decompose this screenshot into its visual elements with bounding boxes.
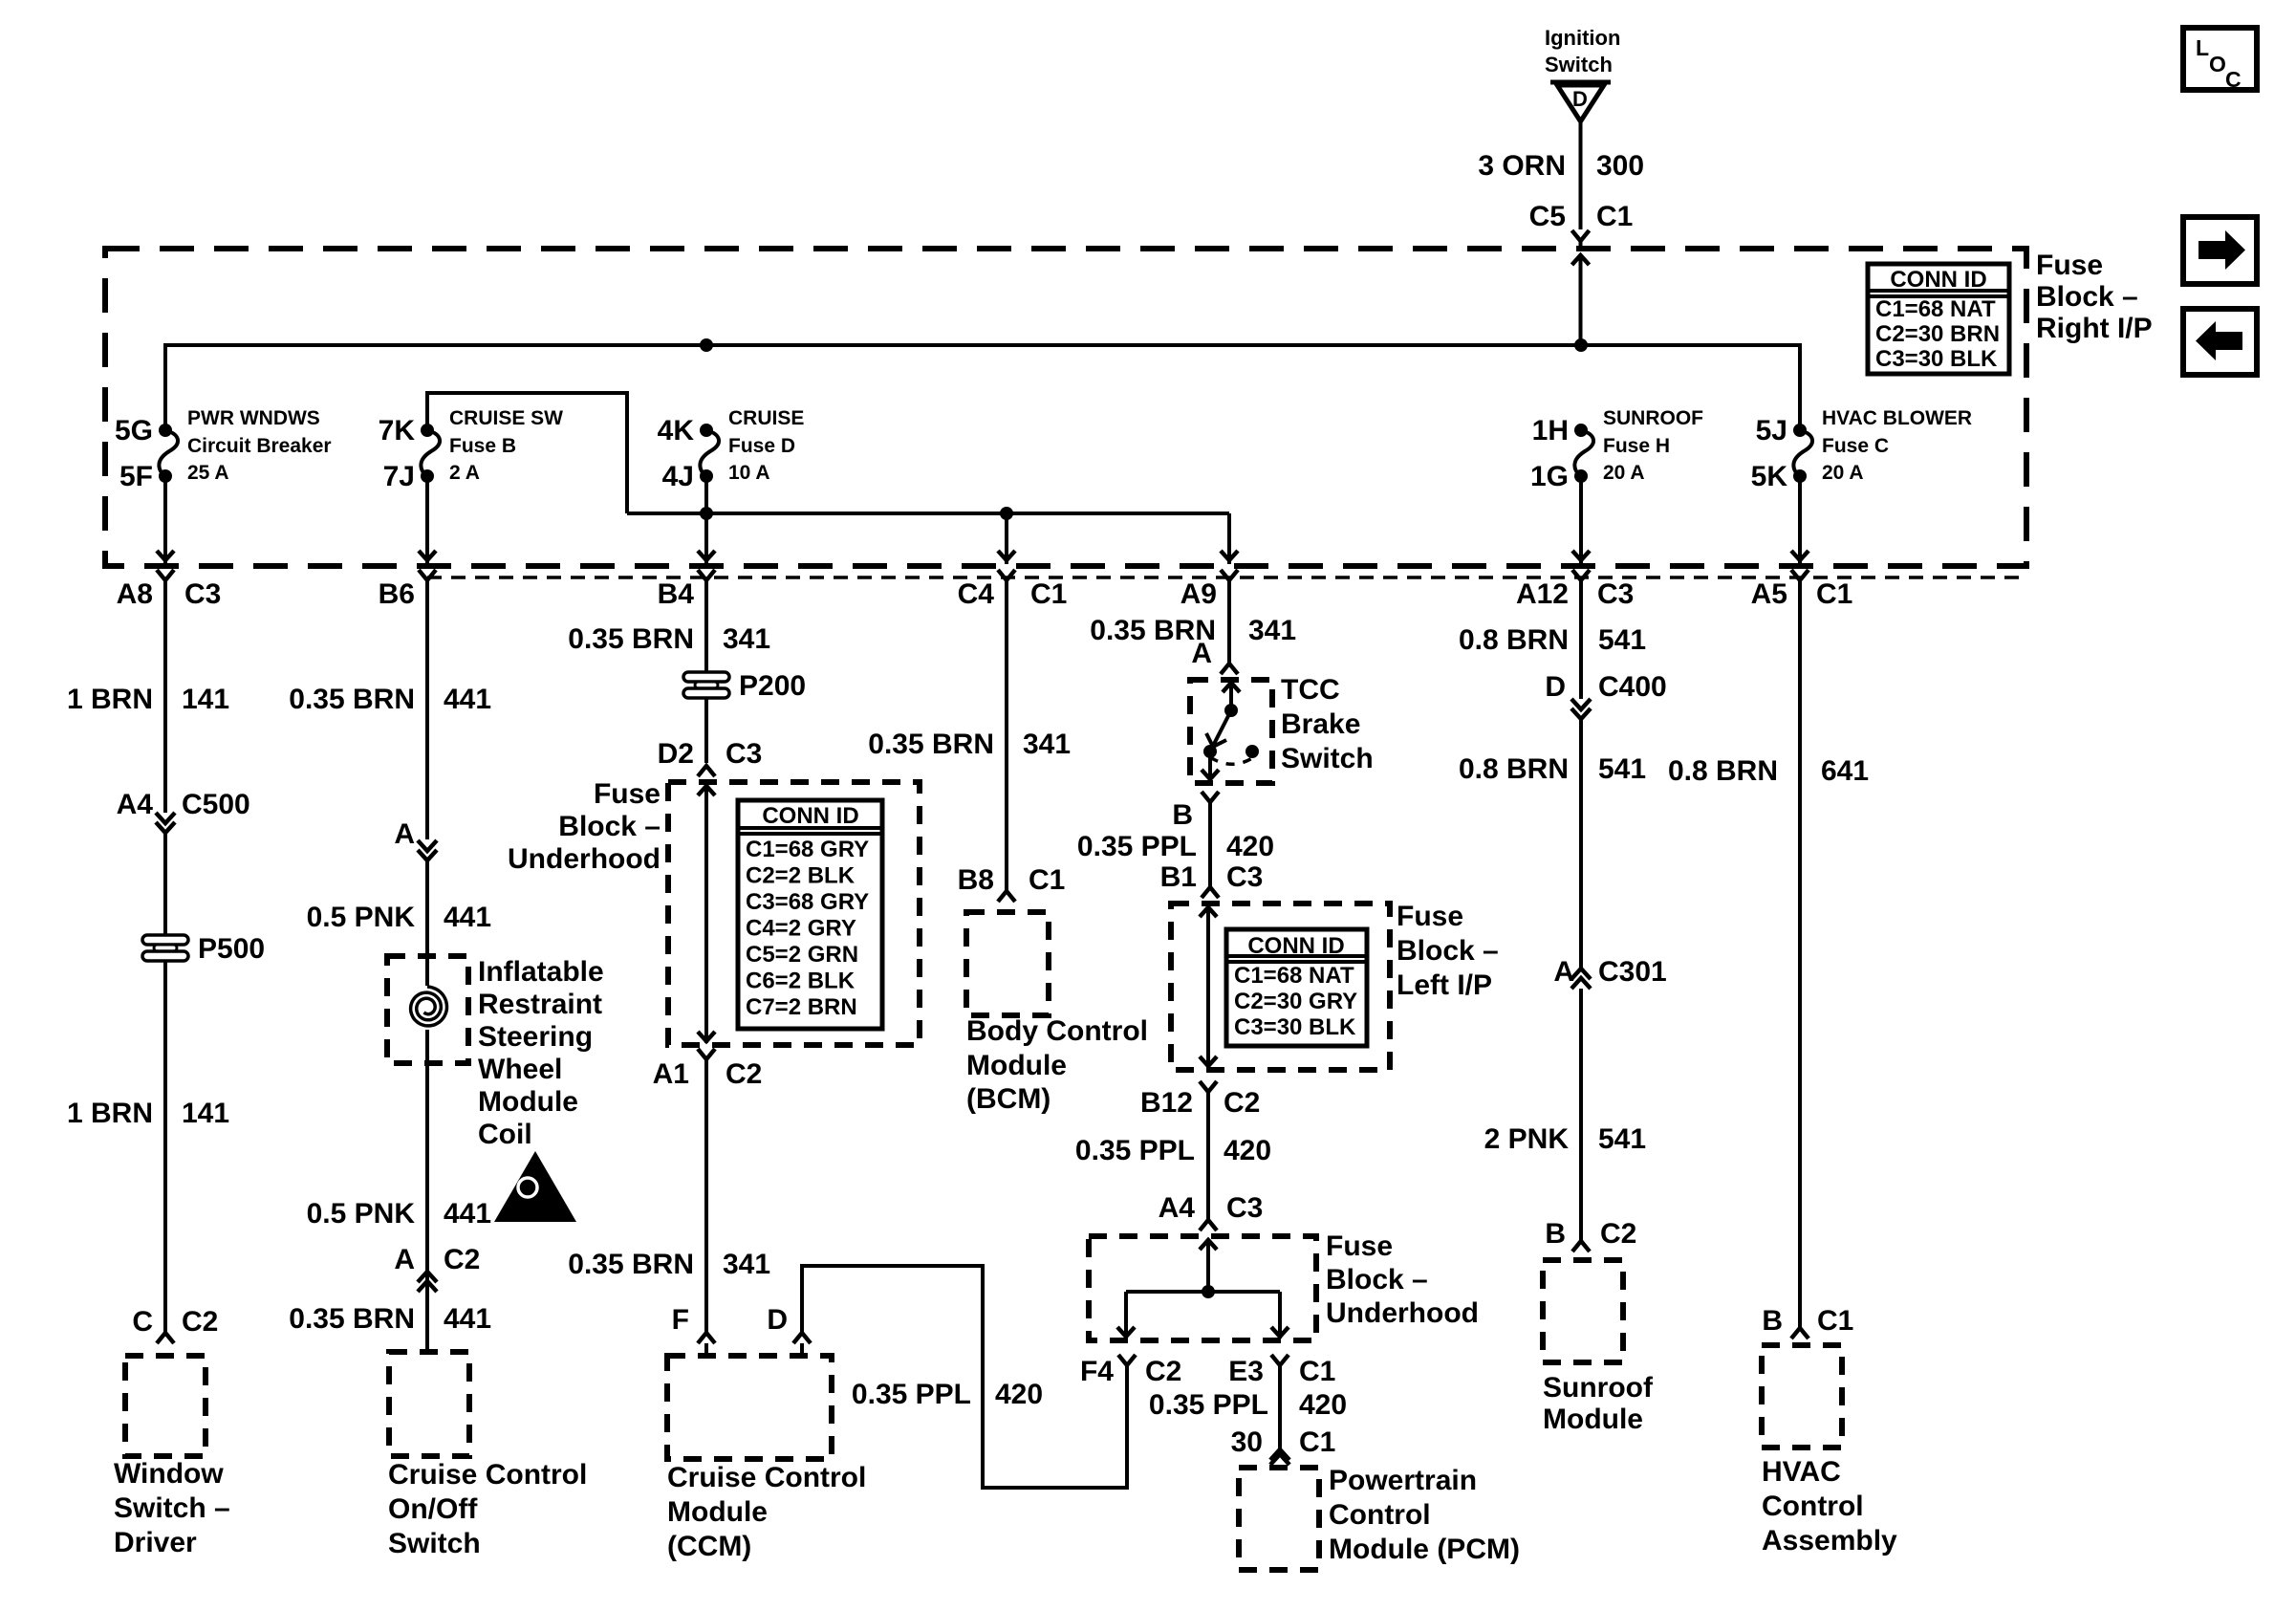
svg-text:341: 341 (1023, 729, 1071, 760)
svg-text:3 ORN: 3 ORN (1478, 150, 1566, 182)
svg-text:B4: B4 (658, 578, 695, 610)
svg-text:P500: P500 (198, 933, 265, 965)
svg-text:F4: F4 (1080, 1356, 1114, 1387)
svg-text:Circuit Breaker: Circuit Breaker (187, 435, 332, 457)
svg-text:C4=2 GRY: C4=2 GRY (746, 916, 856, 942)
svg-text:C3: C3 (726, 738, 762, 770)
svg-text:C3=30 BLK: C3=30 BLK (1234, 1014, 1356, 1040)
svg-text:A12: A12 (1516, 578, 1569, 610)
svg-text:1 BRN: 1 BRN (67, 684, 153, 715)
svg-text:Module: Module (1543, 1404, 1643, 1435)
svg-text:Block –: Block – (2036, 281, 2138, 313)
svg-text:A: A (1191, 638, 1212, 669)
svg-text:Coil: Coil (478, 1119, 532, 1150)
svg-text:Ignition: Ignition (1545, 26, 1620, 50)
svg-text:C3=30 BLK: C3=30 BLK (1875, 346, 1998, 372)
svg-text:541: 541 (1598, 624, 1646, 656)
svg-text:Cruise Control: Cruise Control (388, 1459, 587, 1491)
svg-text:Switch: Switch (388, 1528, 481, 1559)
svg-text:1 BRN: 1 BRN (67, 1098, 153, 1129)
svg-text:Cruise Control: Cruise Control (667, 1462, 866, 1493)
svg-text:541: 541 (1598, 1123, 1646, 1155)
svg-text:Fuse: Fuse (594, 778, 661, 810)
svg-text:C2=2 BLK: C2=2 BLK (746, 863, 856, 889)
svg-text:Switch: Switch (1281, 743, 1374, 774)
svg-text:HVAC BLOWER: HVAC BLOWER (1822, 407, 1972, 429)
svg-text:C2: C2 (1145, 1356, 1181, 1387)
svg-text:CONN ID: CONN ID (1247, 933, 1344, 959)
svg-text:0.5 PNK: 0.5 PNK (307, 902, 416, 933)
svg-text:D2: D2 (658, 738, 694, 770)
svg-text:Module: Module (966, 1050, 1067, 1081)
svg-text:C: C (2225, 67, 2242, 92)
svg-text:1H: 1H (1532, 415, 1569, 446)
svg-text:C1: C1 (1299, 1356, 1335, 1387)
svg-text:Body Control: Body Control (966, 1015, 1148, 1047)
svg-text:C1: C1 (1299, 1426, 1335, 1458)
svg-text:Control: Control (1762, 1491, 1864, 1522)
svg-text:Driver: Driver (114, 1527, 197, 1558)
svg-text:Powertrain: Powertrain (1329, 1465, 1477, 1496)
svg-text:441: 441 (444, 1198, 491, 1230)
svg-text:Sunroof: Sunroof (1543, 1372, 1654, 1404)
svg-text:D: D (1572, 87, 1588, 111)
svg-text:Wheel: Wheel (478, 1054, 562, 1085)
svg-text:C3: C3 (184, 578, 221, 610)
svg-text:(CCM): (CCM) (667, 1531, 751, 1562)
svg-text:25 A: 25 A (187, 462, 229, 484)
svg-text:0.35 PPL: 0.35 PPL (1149, 1389, 1268, 1421)
svg-text:441: 441 (444, 1303, 491, 1335)
svg-text:341: 341 (723, 1249, 770, 1280)
svg-text:A5: A5 (1751, 578, 1787, 610)
svg-text:141: 141 (182, 1098, 229, 1129)
svg-text:C2: C2 (726, 1058, 762, 1090)
svg-text:0.35 BRN: 0.35 BRN (568, 623, 694, 655)
svg-text:Window: Window (114, 1458, 224, 1490)
svg-text:B12: B12 (1140, 1087, 1193, 1119)
svg-text:C6=2 BLK: C6=2 BLK (746, 969, 856, 994)
svg-text:C3: C3 (1226, 1192, 1263, 1224)
svg-text:A: A (1553, 956, 1574, 988)
svg-text:5K: 5K (1751, 461, 1788, 492)
svg-text:Switch –: Switch – (114, 1492, 230, 1524)
svg-text:C2: C2 (1600, 1218, 1636, 1250)
svg-text:C1: C1 (1030, 578, 1067, 610)
svg-text:(BCM): (BCM) (966, 1083, 1051, 1115)
svg-text:5G: 5G (115, 415, 153, 446)
svg-text:Block –: Block – (558, 811, 661, 842)
svg-text:C301: C301 (1598, 956, 1667, 988)
svg-text:10 A: 10 A (728, 462, 770, 484)
svg-text:C2: C2 (182, 1306, 218, 1338)
svg-text:0.8 BRN: 0.8 BRN (1668, 755, 1778, 787)
svg-text:420: 420 (1299, 1389, 1347, 1421)
svg-text:441: 441 (444, 684, 491, 715)
svg-text:C2=30 GRY: C2=30 GRY (1234, 989, 1357, 1014)
svg-text:B: B (1762, 1305, 1783, 1337)
svg-text:0.35 PPL: 0.35 PPL (1075, 1135, 1195, 1166)
svg-text:L: L (2196, 35, 2209, 60)
svg-text:TCC: TCC (1281, 674, 1340, 706)
svg-text:441: 441 (444, 902, 491, 933)
svg-text:C1=68 NAT: C1=68 NAT (1234, 963, 1354, 989)
svg-text:141: 141 (182, 684, 229, 715)
svg-text:C2=30 BRN: C2=30 BRN (1875, 321, 2000, 347)
svg-text:SUNROOF: SUNROOF (1603, 407, 1703, 429)
svg-text:Fuse: Fuse (2036, 250, 2103, 281)
svg-text:C1=68 GRY: C1=68 GRY (746, 837, 869, 862)
svg-text:A: A (394, 1244, 415, 1275)
svg-text:Inflatable: Inflatable (478, 956, 604, 988)
svg-text:C7=2 BRN: C7=2 BRN (746, 994, 857, 1020)
svg-text:C3: C3 (1597, 578, 1634, 610)
svg-text:HVAC: HVAC (1762, 1456, 1841, 1488)
svg-text:Fuse H: Fuse H (1603, 435, 1670, 457)
svg-text:1G: 1G (1530, 461, 1569, 492)
svg-text:CRUISE: CRUISE (728, 407, 804, 429)
svg-text:B6: B6 (379, 578, 415, 610)
svg-text:C5=2 GRN: C5=2 GRN (746, 942, 858, 968)
svg-text:A4: A4 (117, 789, 154, 820)
svg-text:4K: 4K (658, 415, 695, 446)
svg-text:PWR WNDWS: PWR WNDWS (187, 407, 320, 429)
svg-text:C1: C1 (1596, 201, 1633, 232)
svg-text:C3: C3 (1226, 861, 1263, 893)
svg-text:C1: C1 (1816, 578, 1852, 610)
svg-text:541: 541 (1598, 753, 1646, 785)
svg-text:Underhood: Underhood (1326, 1297, 1479, 1329)
svg-text:B1: B1 (1160, 861, 1197, 893)
svg-text:Fuse B: Fuse B (449, 435, 516, 457)
svg-text:A8: A8 (117, 578, 153, 610)
svg-text:420: 420 (1224, 1135, 1271, 1166)
svg-text:2 PNK: 2 PNK (1484, 1123, 1570, 1155)
svg-text:Fuse C: Fuse C (1822, 435, 1889, 457)
svg-text:Module: Module (667, 1496, 768, 1528)
svg-text:Control: Control (1329, 1499, 1431, 1531)
svg-text:420: 420 (995, 1379, 1043, 1410)
svg-text:C1: C1 (1817, 1305, 1853, 1337)
svg-text:On/Off: On/Off (388, 1493, 478, 1525)
svg-text:0.5 PNK: 0.5 PNK (307, 1198, 416, 1230)
svg-text:0.8 BRN: 0.8 BRN (1459, 753, 1569, 785)
svg-text:D: D (767, 1304, 788, 1336)
svg-text:P200: P200 (739, 670, 806, 702)
svg-text:Assembly: Assembly (1762, 1525, 1897, 1557)
svg-text:C2: C2 (444, 1244, 480, 1275)
svg-text:0.35 BRN: 0.35 BRN (868, 729, 994, 760)
svg-text:20 A: 20 A (1603, 462, 1645, 484)
svg-text:Block –: Block – (1397, 935, 1499, 967)
svg-text:Steering: Steering (478, 1021, 593, 1053)
svg-text:F: F (672, 1304, 689, 1336)
svg-text:CONN ID: CONN ID (762, 803, 858, 829)
svg-text:30: 30 (1231, 1426, 1263, 1458)
svg-text:20 A: 20 A (1822, 462, 1864, 484)
svg-text:Fuse D: Fuse D (728, 435, 795, 457)
svg-text:C5: C5 (1529, 201, 1566, 232)
svg-text:641: 641 (1821, 755, 1869, 787)
svg-text:Underhood: Underhood (508, 843, 661, 875)
svg-text:Brake: Brake (1281, 708, 1360, 740)
svg-text:Fuse: Fuse (1397, 901, 1463, 932)
svg-text:7K: 7K (379, 415, 416, 446)
svg-text:A1: A1 (653, 1058, 689, 1090)
svg-text:CONN ID: CONN ID (1890, 267, 1986, 293)
svg-text:Right I/P: Right I/P (2036, 313, 2153, 344)
svg-text:4J: 4J (662, 461, 694, 492)
svg-text:2 A: 2 A (449, 462, 480, 484)
svg-text:Left I/P: Left I/P (1397, 969, 1492, 1001)
svg-text:0.35 PPL: 0.35 PPL (1077, 831, 1197, 862)
svg-text:420: 420 (1226, 831, 1274, 862)
svg-text:Module (PCM): Module (PCM) (1329, 1534, 1520, 1565)
svg-text:C500: C500 (182, 789, 250, 820)
svg-text:O: O (2209, 52, 2226, 76)
svg-text:0.8 BRN: 0.8 BRN (1459, 624, 1569, 656)
svg-text:C2: C2 (1224, 1087, 1260, 1119)
svg-text:0.35 BRN: 0.35 BRN (289, 684, 415, 715)
svg-text:B8: B8 (958, 864, 994, 896)
svg-text:A4: A4 (1159, 1192, 1196, 1224)
svg-text:CRUISE SW: CRUISE SW (449, 407, 563, 429)
svg-text:Block –: Block – (1326, 1264, 1428, 1295)
svg-text:0.35 BRN: 0.35 BRN (568, 1249, 694, 1280)
svg-text:C3=68 GRY: C3=68 GRY (746, 889, 869, 915)
svg-text:Fuse: Fuse (1326, 1230, 1393, 1262)
svg-text:Module: Module (478, 1086, 578, 1118)
svg-text:C1: C1 (1029, 864, 1065, 896)
svg-text:B: B (1545, 1218, 1566, 1250)
svg-text:D: D (1545, 671, 1566, 703)
svg-text:5F: 5F (119, 461, 153, 492)
svg-text:C: C (132, 1306, 153, 1338)
svg-text:C1=68 NAT: C1=68 NAT (1875, 296, 1996, 322)
svg-text:A: A (394, 818, 415, 850)
svg-text:0.35 PPL: 0.35 PPL (852, 1379, 971, 1410)
svg-text:E3: E3 (1228, 1356, 1264, 1387)
svg-text:341: 341 (1248, 615, 1296, 646)
svg-text:B: B (1172, 799, 1193, 831)
svg-text:C400: C400 (1598, 671, 1667, 703)
svg-text:Restraint: Restraint (478, 989, 602, 1020)
svg-text:Switch: Switch (1545, 53, 1613, 76)
svg-text:0.35 BRN: 0.35 BRN (289, 1303, 415, 1335)
svg-text:A9: A9 (1180, 578, 1217, 610)
svg-text:300: 300 (1596, 150, 1644, 182)
svg-text:7J: 7J (383, 461, 415, 492)
svg-text:5J: 5J (1756, 415, 1787, 446)
svg-text:341: 341 (723, 623, 770, 655)
svg-text:C4: C4 (958, 578, 995, 610)
